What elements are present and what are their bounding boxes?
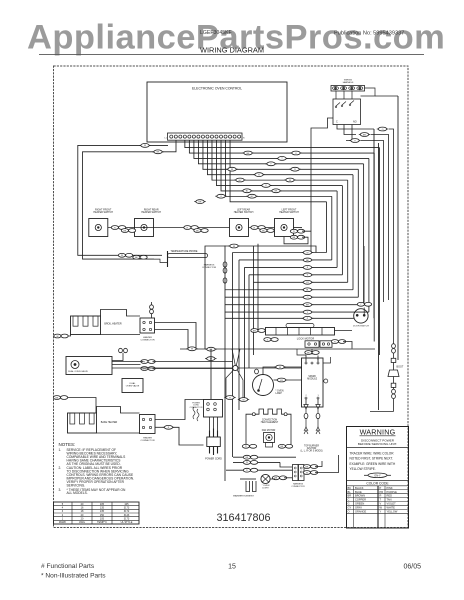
spark module U2 box (302, 358, 324, 407)
electronic oven control U1 box (147, 82, 287, 142)
wire bundle vertical B5 (248, 275, 250, 368)
svg-text:COPPER: COPPER (355, 498, 366, 502)
svg-text:135: 135 (100, 507, 105, 510)
connector P3 right of lamp (276, 378, 287, 382)
svg-text:EXAMPLE: GREEN WIRE WITH: EXAMPLE: GREEN WIRE WITH (350, 462, 396, 466)
svg-text:BR: BR (363, 134, 366, 136)
wire bundle vertical B3 (238, 260, 240, 410)
wire spark module top (297, 349, 318, 362)
svg-text:BEFORE SERVICING UNIT.: BEFORE SERVICING UNIT. (358, 442, 397, 446)
svg-text:TRACER WIRE: WIRE COLOR: TRACER WIRE: WIRE COLOR (350, 451, 395, 455)
connector CN1 on relay wire (377, 127, 388, 131)
wire switch row drop right (302, 231, 311, 252)
svg-text:105: 105 (100, 518, 105, 521)
svg-text:CONNECTOR: CONNECTOR (140, 440, 154, 442)
svg-text:WARMER ELEMENT: WARMER ELEMENT (233, 495, 254, 498)
connector F7 on fan-out wire (215, 194, 226, 198)
connector M6 on lock circuit wire (302, 288, 313, 292)
connector pair H7 (290, 229, 304, 233)
svg-text:Y: Y (380, 510, 382, 514)
connector pair CV2 (278, 444, 292, 448)
wire lock motor right to bus (335, 331, 353, 349)
color code table (347, 486, 409, 528)
connector pair P4 left (53, 396, 96, 413)
wire left front switch loop (284, 237, 308, 244)
connector pair D1 above door switch (357, 302, 371, 306)
connector PW2 (238, 398, 249, 402)
svg-text:PINK: PINK (387, 486, 393, 490)
connector pair DV1 above valve (119, 348, 128, 352)
connector pair H8 (290, 235, 304, 239)
svg-text:NOTED FIRST, STRIPE NEXT.: NOTED FIRST, STRIPE NEXT. (350, 457, 394, 461)
svg-text:MARK: MARK (59, 521, 67, 524)
connector pair SM1 above spark module (305, 351, 319, 355)
boot connector (388, 363, 404, 377)
svg-text:OVEN VALVE: OVEN VALVE (126, 384, 140, 387)
wire valve top (112, 353, 123, 361)
svg-text:POWER CORD: POWER CORD (205, 458, 222, 461)
svg-text:HEAT ELEMENT: HEAT ELEMENT (261, 421, 279, 424)
svg-text:GN-Y: GN-Y (374, 473, 381, 477)
svg-text:ORANGE: ORANGE (355, 510, 367, 514)
wire bundle vertical B7 (257, 244, 259, 331)
svg-text:150: 150 (100, 514, 105, 517)
svg-text:105: 105 (100, 503, 105, 506)
wire door switch top to bus (363, 246, 365, 303)
connector pair CV1 (242, 444, 256, 448)
svg-text:3.: 3. (59, 488, 62, 492)
svg-text:LOCK MOTOR: LOCK MOTOR (297, 336, 315, 340)
connector pair K1 lock motor left (251, 329, 265, 333)
wire harness to right (315, 455, 339, 473)
connector F9 on fan-out wire (265, 162, 276, 166)
connector F11 on fan-out wire (289, 167, 300, 171)
wire EOC left to left bus lower (83, 140, 177, 259)
svg-text:C: C (336, 121, 338, 124)
connector M8 on lock circuit wire (302, 303, 313, 307)
connector pair W6 right of harness (303, 471, 317, 475)
svg-text:NO: NO (353, 121, 357, 124)
svg-text:BR: BR (348, 494, 352, 498)
diagram part number 316417806 (216, 512, 270, 524)
svg-text:BR: BR (306, 304, 309, 306)
wire broil heater to bus (155, 323, 197, 350)
svg-text:O: O (348, 510, 350, 514)
connector pair H1 (111, 226, 125, 230)
wire relay connectors to right bus verticals (361, 129, 394, 344)
wire convection element sides (246, 414, 291, 444)
svg-text:BLUE: BLUE (355, 490, 362, 494)
svg-text:# Functional Parts: # Functional Parts (41, 563, 95, 570)
junction node X1 (226, 349, 243, 398)
harness connector J3 label (202, 264, 216, 269)
connector PW1 (224, 396, 235, 400)
heater switch left rear S box (230, 209, 254, 237)
wire spark module right (323, 357, 331, 383)
connector U1 on row 246 (228, 244, 239, 248)
svg-text:HEATER SWITCH: HEATER SWITCH (234, 211, 254, 214)
harness connector J2 strip (331, 86, 365, 92)
svg-text:PURPLE: PURPLE (387, 490, 398, 494)
connector pair DV2 valve right (141, 360, 155, 364)
connector pair K2 lock motor lower (264, 338, 278, 342)
broil heater element E2 (71, 310, 141, 335)
connector F5 on fan-out wire (260, 184, 271, 188)
connector BK1 right of bake connector (163, 425, 174, 429)
svg-text:W: W (307, 252, 309, 254)
svg-text:316417806: 316417806 (216, 512, 270, 524)
connector L1 on left wire (139, 144, 150, 148)
svg-text:CONNECTOR: CONNECTOR (202, 267, 216, 269)
svg-text:3172: 3172 (124, 510, 130, 513)
wire bundle vertical B4 (244, 267, 246, 399)
wire EOC terminal 5 fan-out (189, 140, 374, 341)
connector CN2 on relay wire (359, 133, 370, 137)
svg-text:1.: 1. (59, 448, 62, 452)
connector F1 on fan-out wire (242, 151, 253, 155)
connector pair V3 on igniter wire (392, 387, 396, 411)
connector pair P5 left broil (54, 334, 71, 338)
svg-text:105: 105 (124, 503, 129, 506)
wire lock box left to bus (311, 118, 333, 231)
svg-text:TEMP°C: TEMP°C (97, 521, 107, 524)
wire lock circuit horizontals (225, 253, 369, 319)
svg-text:W: W (144, 145, 146, 147)
svg-text:LAMP: LAMP (276, 392, 283, 395)
connector pair H4 (194, 229, 208, 233)
svg-text:15: 15 (228, 564, 236, 571)
wire EOC terminal 7 fan-out (198, 140, 363, 303)
wire EOC terminal 9 fan-out (207, 140, 353, 290)
svg-text:R: R (380, 494, 382, 498)
svg-text:W: W (246, 462, 248, 464)
connector N2 on wire 349 (205, 347, 216, 351)
connector F14 on fan-out wire (246, 194, 257, 198)
svg-text:HEATER SWITCH: HEATER SWITCH (93, 211, 113, 214)
wire EOC left to left bus upper (78, 145, 168, 255)
svg-text:WIRING DIAGRAM: WIRING DIAGRAM (200, 45, 264, 54)
heater connector J4 (140, 318, 155, 341)
terminal square upper on igniter wire (391, 353, 396, 362)
wire bundle vertical B1 (224, 246, 226, 482)
power cord connector TB1 (190, 400, 223, 418)
svg-text:W: W (191, 349, 193, 351)
header publication number (334, 31, 404, 37)
svg-text:MODULE: MODULE (307, 379, 317, 381)
svg-text:BROIL HEATER: BROIL HEATER (104, 323, 122, 326)
footer page number (228, 564, 236, 571)
title WIRING DIAGRAM (200, 45, 264, 54)
wire right bus vertical 2 (378, 143, 380, 410)
connector M3 on lock circuit wire (302, 266, 313, 270)
connector pair T1 on probe wire (118, 253, 132, 257)
wire bake heater to power area (155, 400, 204, 446)
oven light DS2 (261, 474, 270, 489)
svg-text:GREEN: GREEN (355, 502, 364, 506)
svg-text:2.: 2. (59, 466, 62, 470)
terminal square lower on igniter wire (391, 377, 396, 388)
wire right bus vertical 3 (375, 96, 398, 360)
heater switch left front S box (275, 209, 300, 237)
svg-text:FAN MOTOR: FAN MOTOR (262, 429, 276, 432)
wire EOC terminal 11 fan-out (217, 140, 343, 275)
dual oven valve relay box (122, 379, 143, 393)
connector pair W5 right of harness (303, 465, 317, 469)
wire EOC terminal 10 fan-out (212, 140, 348, 282)
svg-text:BR: BR (199, 201, 202, 203)
svg-text:GRAY: GRAY (355, 506, 362, 510)
connector V5 below lamp left (255, 369, 259, 374)
connector M5 on lock circuit wire (302, 280, 313, 284)
harness connector J3 symbol (223, 262, 227, 273)
svg-text:W: W (243, 399, 245, 401)
svg-text:SPARK: SPARK (308, 375, 316, 378)
oven lamp DS1 (253, 375, 284, 396)
connector F8 on fan-out wire (194, 200, 205, 204)
connector F13 on fan-out wire (270, 189, 281, 193)
svg-text:3173: 3173 (124, 507, 130, 510)
warmer element E4 (233, 481, 256, 498)
wire EOC terminal 6 fan-out (194, 140, 369, 312)
header rule line (39, 54, 424, 56)
svg-text:W: W (289, 180, 291, 182)
connector V1 vertical (223, 278, 227, 283)
connector P2 right of lamp (274, 365, 285, 369)
connector F12 on fan-out wire (284, 178, 295, 182)
wire right bus vertical 1 (373, 129, 375, 318)
wire EOC terminal 13 fan-out (226, 140, 332, 260)
connector pair V2 on igniter wire (392, 344, 396, 353)
wire EOC terminal 4 fan-out (185, 140, 380, 355)
svg-text:(L, L, R OR S MODS): (L, L, R OR S MODS) (300, 451, 322, 453)
connector M10 on lock circuit wire (302, 316, 313, 320)
wire EOC terminal 8 fan-out (203, 140, 358, 297)
bake heater element E1 (68, 407, 140, 434)
svg-text:YELLOW: YELLOW (387, 510, 398, 514)
footer non-illustrated note (41, 572, 106, 579)
wire power connector to plug (210, 417, 218, 431)
connector F10 on fan-out wire (276, 157, 287, 161)
svg-text:LGEF3045KF: LGEF3045KF (200, 30, 232, 36)
strain relief squiggle (193, 407, 199, 421)
wire EOC terminal 12 fan-out (221, 140, 337, 267)
svg-text:LIGHT: LIGHT (262, 487, 269, 489)
wire bottom rows (226, 457, 296, 479)
svg-text:BOOT: BOOT (397, 366, 404, 369)
heater switch right front S box (89, 209, 113, 237)
connector pair K5 lock motor right (331, 340, 345, 344)
connector pair T2 on probe wire (133, 255, 147, 259)
svg-text:Publication No: 5995439337: Publication No: 5995439337 (334, 31, 404, 37)
svg-text:ELECTRONIC OVEN CONTROL: ELECTRONIC OVEN CONTROL (192, 87, 242, 91)
notes text block (59, 442, 135, 495)
svg-text:GY: GY (348, 506, 352, 510)
svg-text:HARNESS: HARNESS (343, 81, 354, 84)
wire heater switch bus (108, 227, 302, 229)
wire lamp connections (263, 367, 302, 380)
svg-text:W: W (56, 336, 58, 338)
connector N1 on wire 349 (186, 347, 197, 351)
svg-text:W: W (121, 255, 123, 257)
connector M7 on lock circuit wire (302, 295, 313, 299)
svg-text:CONNECTOR: CONNECTOR (291, 486, 305, 488)
wire harness strip to lock box (336, 88, 375, 99)
svg-text:HEATER SWITCH: HEATER SWITCH (279, 211, 299, 214)
svg-text:V: V (380, 502, 382, 506)
svg-text:UL STYLE: UL STYLE (121, 521, 133, 524)
wire mid vertical 211 (210, 349, 212, 399)
svg-text:RED: RED (387, 494, 393, 498)
svg-text:135: 135 (100, 510, 105, 513)
dual oven valve V4 box (66, 357, 112, 375)
svg-text:DOOR SWITCH: DOOR SWITCH (353, 326, 369, 328)
wire bundle vertical B2 (232, 253, 234, 458)
svg-text:BLACK: BLACK (355, 486, 364, 490)
wire lock box pins down to right bus (337, 125, 374, 141)
fan motor M3 (262, 429, 276, 447)
connector F6 on fan-out wire (241, 189, 252, 193)
connector pair H6 (260, 229, 274, 233)
harness connector J2 label (343, 80, 354, 84)
wire junction row 349 (180, 348, 375, 350)
svg-text:* OVEN: * OVEN (276, 391, 284, 393)
connector M4 on lock circuit wire (302, 273, 313, 277)
wire light to connector (270, 478, 292, 479)
lock switch assembly S10 box (333, 99, 361, 125)
connector N3 on vertical 211 (205, 357, 216, 361)
connector F2 on fan-out wire (226, 167, 237, 171)
heater connector J5 (140, 415, 156, 442)
svg-text:AWG: AWG (79, 521, 85, 524)
connector F15 on fan-out wire (290, 151, 301, 155)
svg-text:06/05: 06/05 (404, 564, 422, 571)
diagram border frame (54, 66, 409, 528)
wire bundle vertical B6 (253, 246, 255, 355)
svg-text:TAN: TAN (387, 498, 392, 502)
wire horizontal through junction (112, 367, 302, 369)
connector CN3 on relay wire (349, 139, 360, 143)
svg-text:HEATER SWITCH: HEATER SWITCH (141, 211, 161, 214)
connector pair H5 (251, 226, 265, 230)
connector pair W2 (243, 461, 257, 465)
lock motor switch block (305, 341, 332, 348)
svg-text:ALL MODELS.: ALL MODELS. (67, 491, 88, 495)
svg-text:TEMPERATURE PROBE: TEMPERATURE PROBE (171, 250, 198, 253)
svg-text:CONNECTOR: CONNECTOR (190, 407, 203, 409)
svg-text:WHITE: WHITE (387, 506, 396, 510)
warning box (347, 427, 409, 529)
svg-text:VIOLET: VIOLET (387, 502, 397, 506)
svg-text:W: W (306, 472, 308, 474)
svg-text:NOTES:: NOTES: (59, 442, 76, 447)
temperature probe PR1 (113, 250, 208, 267)
svg-text:DUAL OVEN VALVE: DUAL OVEN VALVE (68, 370, 88, 373)
svg-text:YELLOW STRIPE.: YELLOW STRIPE. (350, 467, 376, 471)
connector pair DV3 valve right lower (141, 367, 155, 371)
svg-text:PR: PR (380, 490, 384, 494)
connector pair W1 (243, 455, 257, 459)
wire igniter to oven area (370, 411, 394, 413)
svg-text:* Non-Illustrated Parts: * Non-Illustrated Parts (41, 572, 106, 579)
connector F4 on fan-out wire (234, 178, 245, 182)
convection heat element E3 (252, 409, 287, 424)
connector pair H3 (184, 226, 198, 230)
watermark AppliancePartsPros.com (27, 19, 445, 57)
door switch S5 (353, 308, 369, 328)
wire EOC terminal 14 fan-out (230, 140, 326, 252)
svg-text:W: W (233, 246, 235, 248)
connector pair H2 (121, 229, 135, 233)
lock motor M2 (266, 324, 335, 341)
connector pair B1 above heater connector (150, 302, 154, 318)
heater switch right rear S box (135, 209, 162, 237)
connector F3 on fan-out wire (253, 173, 264, 177)
connector M1 on lock circuit wire (302, 251, 313, 255)
svg-text:BK: BK (348, 486, 352, 490)
svg-text:W: W (279, 367, 281, 369)
svg-text:CONNECTOR: CONNECTOR (140, 339, 154, 341)
harness connector J6 (291, 465, 305, 488)
svg-text:3173: 3173 (124, 518, 130, 521)
footer date (404, 564, 422, 571)
power cord plug (205, 429, 222, 461)
connector M9 on lock circuit wire (302, 310, 313, 314)
svg-text:BL: BL (348, 490, 352, 494)
svg-text:P: P (380, 486, 382, 490)
connector M2 on lock circuit wire (302, 258, 313, 262)
electronic oven control terminal strip P1 (165, 133, 245, 140)
svg-text:C: C (348, 498, 350, 502)
connector pair W4 (272, 476, 286, 480)
svg-text:BAKE HEATER: BAKE HEATER (101, 421, 118, 424)
wire valve to junction (112, 362, 233, 369)
svg-text:W: W (231, 169, 233, 171)
svg-text:WARNING: WARNING (360, 427, 396, 436)
svg-text:3143: 3143 (124, 514, 130, 517)
header model number (200, 30, 232, 36)
wire gauge table (54, 502, 140, 524)
top burner igniters (300, 399, 322, 453)
footer functional parts note (41, 563, 95, 570)
connector L2 on left wire (152, 150, 163, 154)
svg-text:COLOR CODE: COLOR CODE (366, 482, 389, 486)
connector pair W3 (243, 468, 257, 472)
svg-text:G: G (348, 502, 350, 506)
svg-text:BROWN: BROWN (355, 494, 365, 498)
wire row 246 upper (205, 246, 316, 349)
